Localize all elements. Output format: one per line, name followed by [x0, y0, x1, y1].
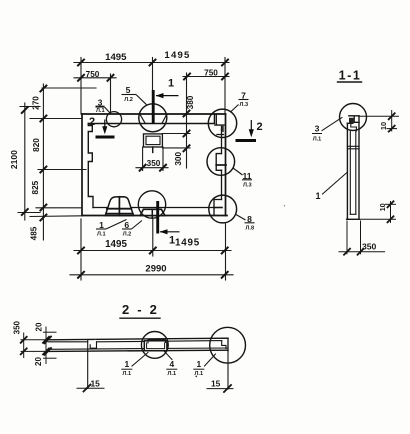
- key top protruding line: [148, 340, 166, 343]
- top hook rebate profile: [347, 116, 359, 124]
- interior opening rectangle inner: [146, 136, 160, 144]
- svg-text:15: 15: [91, 379, 101, 389]
- section marker 2 left: thick bar: [96, 136, 115, 139]
- callout circle 3 (top edge small): [106, 112, 121, 127]
- ext line right top: [224, 58, 226, 115]
- left ext horizontals: [42, 87, 96, 89]
- svg-text:11: 11: [242, 171, 251, 181]
- leader callout 5: [122, 94, 137, 96]
- svg-text:3: 3: [315, 123, 320, 133]
- svg-text:350: 350: [13, 320, 22, 334]
- leader callout 11: [233, 168, 243, 175]
- middle detail circle: [141, 332, 168, 359]
- key inner border: [147, 343, 165, 349]
- right edge keyway groove detail (bottom): [214, 200, 222, 216]
- wall outer left line: [346, 123, 348, 219]
- bottom dim 350: [346, 221, 348, 254]
- scan speckles: [95, 205, 285, 377]
- svg-text:350: 350: [362, 242, 377, 252]
- leader and label 4/L1: [164, 351, 173, 360]
- left end rebate step: [90, 342, 96, 348]
- slab top outer line: [48, 338, 228, 340]
- svg-text:20: 20: [35, 322, 44, 331]
- panel bottom edge outer line: [82, 215, 227, 217]
- dimension 350 under opening: [142, 147, 144, 171]
- section marker 2 right: thick bar: [236, 139, 257, 142]
- callout circle 8 (right edge bottom): [209, 195, 237, 223]
- callout circle 5 (top edge large): [139, 104, 167, 132]
- leader callout 8: [236, 215, 246, 221]
- key detail rectangle (4/L1): [144, 341, 167, 351]
- svg-text:4: 4: [169, 359, 174, 369]
- ext line left top: [80, 58, 82, 115]
- vertical dim line 380/300: [186, 73, 188, 168]
- left dim stack: 20 dim line: [45, 327, 47, 364]
- svg-text:Л.1: Л.1: [96, 108, 105, 114]
- svg-text:820: 820: [32, 138, 41, 152]
- svg-text:1: 1: [168, 78, 174, 90]
- dimension 750 left line: [74, 77, 116, 79]
- overall 2100 dim line: [24, 103, 26, 220]
- svg-text:Л.2: Л.2: [123, 231, 132, 237]
- panel left edge outer line: [81, 114, 83, 216]
- top right dim 10: extension line: [359, 115, 399, 117]
- section 2-2 title: [122, 302, 159, 317]
- section 1-1 title: [339, 69, 362, 83]
- svg-text:1: 1: [315, 191, 320, 201]
- svg-text:2100: 2100: [9, 150, 19, 169]
- hook inner step: [351, 123, 357, 131]
- left dim line (270/820/825/485): [42, 84, 44, 240]
- svg-text:380: 380: [186, 95, 195, 109]
- svg-text:Л.3: Л.3: [240, 102, 249, 108]
- wall inner right line: [355, 131, 357, 214]
- top edge trapezoid key: [140, 114, 167, 124]
- svg-text:10: 10: [378, 203, 387, 211]
- svg-text:1495: 1495: [164, 50, 190, 61]
- bottom right dim 10: [359, 218, 396, 220]
- leader and label 1/L1 first: [132, 353, 148, 367]
- top-right corner rebate detail: [214, 114, 224, 135]
- panel right edge inner line segments: [221, 130, 223, 154]
- svg-text:270: 270: [32, 96, 41, 110]
- wall bottom outer line: [347, 218, 359, 220]
- callout circle 11 (right edge middle): [207, 148, 235, 176]
- svg-text:1495: 1495: [105, 52, 127, 63]
- bar under 3: [96, 105, 105, 107]
- leader and label 1/L1 second: [205, 354, 216, 366]
- ext horizontals from opening to 300 dim: [163, 133, 191, 135]
- tick marks top row: [78, 60, 228, 66]
- section 1-1 title underline: [338, 81, 362, 83]
- svg-text:750: 750: [86, 70, 100, 79]
- right detail circle: [210, 327, 246, 363]
- svg-text:1-1: 1-1: [339, 69, 362, 83]
- svg-text:Л.3: Л.3: [243, 182, 252, 188]
- bottom overall 2990 dim: [70, 274, 233, 276]
- leader callout 3: [96, 106, 105, 108]
- svg-text:350: 350: [147, 159, 161, 168]
- detail circle at panel top: [340, 104, 367, 131]
- right end face vertical: [227, 338, 229, 351]
- dim 15 left: [77, 387, 104, 389]
- svg-text:750: 750: [204, 69, 218, 78]
- svg-text:2990: 2990: [145, 264, 166, 275]
- svg-text:20: 20: [34, 357, 43, 366]
- svg-text:1: 1: [169, 235, 175, 247]
- callout circle hat2: [138, 191, 165, 218]
- svg-text:Л.1: Л.1: [97, 231, 106, 237]
- section 2-2 title underline: [120, 317, 160, 319]
- top dimension row 1495+1495 line: [74, 62, 229, 64]
- svg-text:1495: 1495: [105, 239, 127, 250]
- joint vertical line at left: [87, 340, 89, 389]
- section marker 2 left: arrow down: [104, 120, 106, 131]
- panel bottom edge inner line: [93, 207, 214, 209]
- hat detail 1 (bottom left insert): [105, 197, 133, 216]
- svg-text:300: 300: [174, 152, 183, 166]
- wall inner left line: [349, 131, 351, 214]
- dimension 750 right line: [183, 76, 229, 78]
- svg-text:2 - 2: 2 - 2: [122, 302, 159, 317]
- svg-text:Л.1: Л.1: [168, 371, 177, 377]
- left cut tick marks: [45, 337, 52, 355]
- leader callout 7: [231, 105, 239, 112]
- slab bottom inner line: [48, 348, 228, 349]
- left dim ticks: [21, 337, 49, 355]
- svg-text:Л.1: Л.1: [123, 371, 132, 377]
- bottom dim row 1495+1495: [74, 250, 231, 252]
- ext line to small circle: [110, 74, 112, 112]
- callout circle 7 (top right corner): [208, 109, 236, 137]
- wall inner bottom cap: [350, 213, 356, 215]
- section marker 1 bottom: thick line: [156, 201, 159, 234]
- top right dim 10: dim line: [391, 111, 393, 132]
- svg-text:15: 15: [211, 378, 221, 388]
- panel left edge inner profile with tabs: [88, 124, 93, 208]
- svg-text:1: 1: [124, 359, 129, 369]
- svg-text:1: 1: [196, 359, 201, 369]
- interior opening rectangle (350x300) outer: [144, 134, 163, 147]
- right joint vertical extended down: [227, 338, 229, 389]
- svg-text:485: 485: [30, 226, 39, 240]
- svg-text:10: 10: [379, 122, 388, 130]
- right edge keyway groove detail (middle): [216, 154, 221, 171]
- slab top inner line (broken at joint and key): [48, 341, 88, 343]
- rotated dim texts: [13, 320, 44, 365]
- left ext horizontals: [21, 339, 48, 341]
- opening centre line: [152, 147, 154, 152]
- svg-text:Л.1: Л.1: [313, 136, 322, 142]
- panel top edge outer line: [82, 113, 226, 115]
- section marker 1 top: arrow: [156, 95, 179, 97]
- leader and label 1: [323, 173, 348, 195]
- leader and label 3/L1: [322, 118, 342, 131]
- svg-text:1495: 1495: [175, 238, 200, 249]
- svg-text:825: 825: [31, 180, 40, 194]
- section marker 1 top: thick line: [152, 90, 155, 124]
- svg-text:Л.8: Л.8: [246, 225, 255, 231]
- joint double lines: [347, 145, 359, 147]
- svg-text:Л.2: Л.2: [124, 97, 133, 103]
- section marker 2 right: arrow down: [250, 120, 252, 134]
- hook dark block: [349, 118, 354, 124]
- panel top edge inner line: [88, 123, 214, 125]
- ext line mid top: [152, 58, 154, 91]
- right end rebate step: [222, 338, 228, 348]
- svg-text:6: 6: [124, 220, 129, 230]
- dim 15 right: [207, 388, 233, 390]
- left dim stack: 350 dim line: [23, 333, 25, 358]
- leader callout 6 bottom: [122, 228, 132, 230]
- svg-text:3: 3: [98, 98, 103, 108]
- svg-text:8: 8: [247, 214, 252, 224]
- leader callout 1 bottom: [96, 228, 106, 230]
- panel right edge outer line: [225, 114, 227, 216]
- svg-text:7: 7: [241, 91, 246, 101]
- wall outer right line: [358, 116, 360, 220]
- svg-text:5: 5: [126, 85, 131, 95]
- svg-text:1: 1: [99, 220, 104, 230]
- hat detail 2 (trapezoid key in circle): [140, 209, 165, 215]
- section marker 1 bottom: arrow: [160, 231, 180, 233]
- svg-text:2: 2: [256, 121, 262, 133]
- svg-text:2: 2: [89, 116, 95, 128]
- slab bottom outer line: [48, 350, 228, 351]
